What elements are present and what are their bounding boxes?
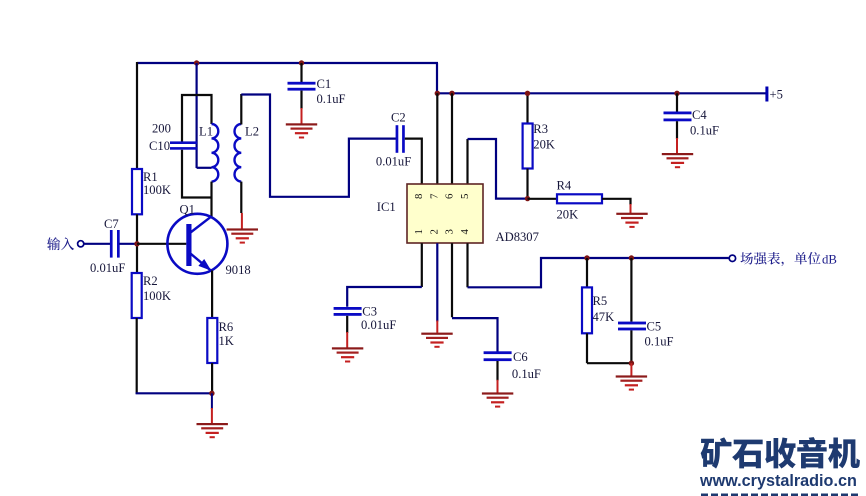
- node junction dot output C5: [629, 255, 634, 260]
- wire tank center-tap vertical: [196, 63, 198, 168]
- svg-text:R5: R5: [593, 294, 608, 308]
- svg-text:C3: C3: [362, 304, 377, 318]
- wire C5 bottom stub: [630, 330, 632, 363]
- resistor R1: [132, 169, 142, 214]
- svg-text:R6: R6: [219, 320, 234, 334]
- capacitor C1: [288, 82, 316, 85]
- wire C2 right to pin8: [405, 139, 422, 185]
- wire L2 bottom stub: [240, 182, 242, 213]
- svg-text:20K: 20K: [557, 207, 579, 221]
- svg-text:2: 2: [429, 229, 441, 234]
- ground under pin2: [421, 333, 452, 348]
- wire pin4 stub: [466, 243, 468, 287]
- wire L2 top route to C2: [241, 95, 396, 197]
- wire C1 ground red stub: [301, 108, 303, 124]
- wire top rail: [137, 62, 438, 64]
- terminal output circle: [729, 255, 735, 261]
- wire ground red stub bottom-left: [211, 408, 213, 423]
- capacitor C4: [664, 112, 692, 115]
- wire C7 to base junction: [119, 243, 137, 245]
- inductor L1: [212, 124, 219, 182]
- wire R5 top stub: [586, 258, 588, 287]
- svg-text:7: 7: [429, 193, 441, 199]
- node junction dot +5 rail pin6: [449, 91, 454, 96]
- wire R3 top stub: [526, 93, 528, 123]
- transistor Q1 base bar: [186, 224, 191, 266]
- wire L1 box top bar: [182, 95, 212, 142]
- node junction dot output R5: [584, 255, 589, 260]
- wire L2 ground red stub: [241, 213, 243, 229]
- wire left rail top segment: [136, 62, 138, 170]
- wire pin1 route to C3: [347, 287, 422, 307]
- wire R4 right to ground: [602, 199, 631, 205]
- svg-text:0.01uF: 0.01uF: [376, 154, 411, 168]
- wire C3 bottom stub: [346, 316, 348, 333]
- ground under R5 C5: [616, 375, 647, 390]
- svg-text:3: 3: [443, 229, 455, 234]
- svg-text:4: 4: [459, 229, 471, 235]
- capacitor C5: [618, 322, 646, 325]
- svg-text:9018: 9018: [226, 263, 251, 277]
- wire C4 top stub: [676, 93, 678, 111]
- svg-text:AD8307: AD8307: [496, 230, 539, 244]
- node junction dot emitter ground: [209, 391, 214, 396]
- svg-text:dB: dB: [822, 252, 837, 266]
- resistor R6: [207, 318, 217, 363]
- resistor R3: [523, 124, 533, 169]
- capacitor C2: [396, 125, 399, 153]
- svg-text:8: 8: [413, 194, 425, 199]
- wire pin3 route to C6: [452, 318, 498, 351]
- svg-text:200: 200: [152, 121, 171, 135]
- wire C3 ground red stub: [346, 332, 348, 348]
- wire L1 box bottom bar: [182, 150, 212, 198]
- transistor Q1 emitter diagonal: [191, 254, 212, 271]
- node junction dot top rail tank tap: [194, 60, 199, 65]
- capacitor C6: [484, 351, 512, 354]
- label output 场强表单位: [740, 252, 820, 266]
- node junction dot +5 rail pin7: [435, 91, 440, 96]
- capacitor C7: [110, 230, 113, 258]
- transistor Q1 circle: [167, 214, 227, 274]
- wire C5 top stub: [630, 258, 632, 322]
- wire R5C5 ground red stub: [630, 363, 632, 375]
- svg-text:47K: 47K: [593, 310, 615, 324]
- svg-text:L2: L2: [245, 125, 259, 139]
- node junction dot +5 rail C4: [674, 91, 679, 96]
- wire left rail bottom segment: [136, 318, 138, 394]
- node junction dot R5 C5 ground: [629, 361, 634, 366]
- wire emitter: [211, 271, 213, 319]
- ground under R4: [616, 213, 647, 228]
- svg-text:C5: C5: [647, 320, 662, 334]
- svg-text:R1: R1: [143, 170, 158, 184]
- wire C4 ground red stub: [676, 138, 678, 153]
- capacitor C3: [334, 307, 362, 310]
- resistor R2: [132, 273, 142, 318]
- svg-text:C1: C1: [317, 77, 332, 91]
- node junction dot R3 R4 pin5: [525, 196, 530, 201]
- svg-text:C4: C4: [692, 108, 707, 122]
- wire C1 bottom stub: [300, 91, 302, 109]
- wire R6 bottom: [211, 363, 213, 393]
- wire pin7 stub: [436, 93, 438, 184]
- svg-text:100K: 100K: [143, 289, 171, 303]
- ground under C6: [482, 392, 513, 407]
- wire input to C7: [85, 243, 111, 245]
- transistor Q1 emitter arrow: [198, 259, 211, 271]
- ground under C4: [662, 153, 693, 168]
- op-amp IC1 AD8307 body: [407, 184, 483, 243]
- svg-text:R2: R2: [143, 274, 158, 288]
- wire pin3 stub: [451, 243, 453, 317]
- svg-text:0.01uF: 0.01uF: [90, 261, 125, 275]
- svg-text:+5: +5: [770, 87, 783, 101]
- svg-text:0.01uF: 0.01uF: [361, 318, 396, 332]
- svg-text:5: 5: [459, 194, 471, 199]
- svg-text:1: 1: [413, 229, 425, 234]
- wire R5-C5 bottom horizontal: [587, 362, 631, 364]
- svg-text:6: 6: [443, 193, 455, 199]
- wire pin5 route: [468, 139, 527, 199]
- resistor R4: [557, 194, 602, 203]
- wire R4 left: [528, 198, 558, 200]
- transistor Q1 collector diagonal: [191, 217, 212, 233]
- wire ground stub bottom-left: [211, 393, 213, 409]
- svg-text:L1: L1: [199, 125, 213, 139]
- wire R4 ground red stub: [630, 204, 632, 213]
- svg-text:R4: R4: [557, 179, 572, 193]
- svg-text:C10: C10: [149, 139, 170, 153]
- node junction dot +5 rail R3: [525, 91, 530, 96]
- wire C4 bottom stub: [676, 121, 678, 139]
- wire left rail mid segment: [136, 214, 138, 273]
- resistor R5: [582, 287, 592, 333]
- svg-text:0.1uF: 0.1uF: [690, 123, 719, 137]
- wire pin6 stub: [451, 93, 453, 184]
- wire tank tap horizontal to L1: [197, 167, 212, 169]
- label input 输入: [47, 237, 74, 250]
- wire pin2 down: [436, 243, 438, 321]
- svg-text:100K: 100K: [143, 183, 171, 197]
- wire pin4 route to output: [468, 258, 729, 287]
- svg-text:20K: 20K: [533, 138, 555, 152]
- svg-text:www.crystalradio.cn: www.crystalradio.cn: [699, 472, 857, 490]
- wire base: [137, 243, 186, 245]
- svg-text:0.1uF: 0.1uF: [645, 335, 674, 349]
- svg-text:C6: C6: [513, 350, 528, 364]
- terminal +5 tick: [765, 87, 768, 102]
- ground under L2: [227, 228, 258, 243]
- wire pin1 stub: [421, 243, 423, 287]
- svg-text:0.1uF: 0.1uF: [512, 367, 541, 381]
- wire top-right corner down to +5 rail: [436, 63, 438, 94]
- wire bottom-left horizontal: [136, 392, 212, 394]
- capacitor C10: [170, 141, 197, 144]
- svg-text:Q1: Q1: [180, 203, 195, 217]
- wire C6 bottom stub: [496, 361, 498, 381]
- logo 矿石收音机: [701, 437, 860, 469]
- svg-text:C2: C2: [391, 110, 406, 124]
- wire pin5 stub: [466, 139, 468, 185]
- logo bottom cropped text strip: [701, 494, 858, 496]
- node junction dot base: [134, 241, 139, 246]
- wire L2 top stub: [240, 94, 242, 125]
- ground under C3: [332, 347, 363, 362]
- wire L1 bottom to collector: [210, 182, 212, 217]
- svg-text:R3: R3: [533, 122, 548, 136]
- wire R3 bottom stub: [526, 169, 528, 199]
- wire C1 top stub: [300, 63, 302, 82]
- wire R5 bottom stub: [586, 333, 588, 363]
- terminal input circle: [78, 241, 84, 247]
- svg-text:IC1: IC1: [377, 200, 396, 214]
- ground under C1: [286, 123, 317, 138]
- inductor L2: [235, 124, 242, 182]
- node junction dot top rail C1: [299, 60, 304, 65]
- svg-text:C7: C7: [104, 217, 119, 231]
- wire pin2 ground red stub: [436, 321, 438, 333]
- wire C6 ground red stub: [497, 380, 499, 393]
- svg-text:0.1uF: 0.1uF: [317, 92, 346, 106]
- ground bottom-left: [197, 423, 228, 438]
- svg-text:1K: 1K: [219, 334, 234, 348]
- wire +5 rail: [437, 92, 767, 94]
